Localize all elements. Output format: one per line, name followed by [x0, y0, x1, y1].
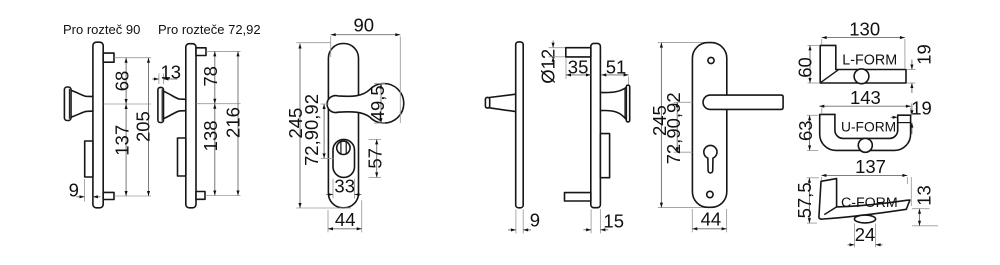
- svg-text:9: 9: [530, 209, 540, 230]
- svg-text:33: 33: [334, 175, 355, 196]
- C-FORM dim 24: [854, 224, 856, 248]
- fig3 dim 33: [332, 179, 334, 199]
- svg-text:Ø12: Ø12: [538, 49, 559, 84]
- C-FORM dim 137: [820, 177, 822, 180]
- fig3 screw head: [337, 141, 350, 154]
- fig3 dim 57: [369, 138, 382, 140]
- U-FORM handle (top view) outer: [820, 114, 911, 150]
- svg-text:137: 137: [855, 156, 886, 177]
- fig5 lever grip face: [626, 85, 629, 122]
- svg-text:13: 13: [161, 62, 182, 83]
- fig2 top pin: [196, 48, 206, 56]
- U-FORM dim 19: [911, 104, 913, 116]
- svg-text:60: 60: [794, 57, 815, 78]
- svg-text:Pro rozteče 72,92: Pro rozteče 72,92: [158, 22, 261, 37]
- fig2 knob face: [158, 87, 164, 122]
- svg-text:35: 35: [568, 56, 589, 77]
- svg-text:Pro rozteč 90: Pro rozteč 90: [63, 22, 140, 37]
- C-FORM dim 57,5: [807, 177, 819, 179]
- svg-text:205: 205: [132, 111, 153, 142]
- L-FORM hub circle: [854, 69, 869, 84]
- svg-text:15: 15: [603, 210, 624, 231]
- L-FORM dim 60: [808, 44, 820, 46]
- fig6 screw hole top: [708, 57, 714, 63]
- L-FORM handle (top view): [820, 45, 906, 83]
- svg-text:U-FORM: U-FORM: [841, 120, 896, 135]
- fig1 extension lines: [114, 57, 151, 59]
- fig6 euro keyhole: [704, 145, 717, 173]
- fig2 dim 78/138 line: [214, 51, 216, 195]
- fig3 knob (front): [327, 84, 404, 124]
- L-FORM dim 130: [821, 39, 823, 44]
- fig3 plate (front view): [328, 44, 358, 208]
- svg-text:63: 63: [795, 120, 816, 141]
- fig5 spindle pin top: [566, 48, 591, 57]
- svg-text:C-FORM: C-FORM: [841, 195, 898, 211]
- fig1 knob face: [64, 87, 71, 121]
- C-FORM dim 13: [910, 177, 912, 206]
- svg-text:19: 19: [911, 98, 932, 119]
- fig5 plate (side view): [591, 43, 601, 207]
- svg-text:57: 57: [364, 148, 385, 169]
- fig6 screw hole bottom: [707, 191, 713, 197]
- svg-text:24: 24: [855, 224, 876, 245]
- U-FORM dim 63: [807, 114, 818, 116]
- fig1 bottom pin: [103, 192, 114, 199]
- svg-text:130: 130: [849, 18, 880, 39]
- fig3 dim 44: [327, 210, 329, 232]
- fig5 lever neck: [600, 87, 626, 119]
- fig5/6 dim 245: [658, 42, 709, 44]
- svg-text:72,90,92: 72,90,92: [663, 92, 684, 164]
- fig1 knob neck: [71, 90, 93, 117]
- fig2 cylinder cover (raised block): [178, 138, 186, 176]
- U-FORM dim 143: [821, 108, 823, 114]
- svg-text:L-FORM: L-FORM: [842, 52, 897, 68]
- fig5 dim 35: [565, 58, 567, 80]
- fig5 dim 15: [590, 209, 592, 233]
- fig6 dim 72,90,92: [674, 101, 693, 103]
- svg-text:49,5: 49,5: [367, 85, 388, 121]
- fig1 cylinder cover (raised block): [85, 141, 93, 177]
- svg-text:216: 216: [222, 107, 243, 138]
- fig3 dim 72,90,92: [323, 104, 325, 158]
- C-FORM handle (top view): [819, 179, 910, 220]
- fig1 dim 68/137 line: [125, 58, 127, 196]
- fig3 cylinder oval: [333, 139, 355, 177]
- U-FORM end ledge: [898, 122, 911, 124]
- svg-text:44: 44: [335, 209, 356, 230]
- svg-text:137: 137: [111, 125, 132, 156]
- svg-text:57,5: 57,5: [794, 182, 815, 218]
- svg-text:138: 138: [200, 120, 221, 151]
- fig2 bottom pin: [196, 192, 205, 200]
- svg-text:78: 78: [200, 66, 221, 87]
- fig3 extension lines: [296, 42, 330, 44]
- fig2 knob neck: [164, 91, 186, 119]
- svg-text:90: 90: [354, 14, 375, 35]
- fig2 plate (side view): [186, 44, 196, 208]
- fig5 bottom pin: [565, 193, 591, 201]
- C-FORM hub ellipse: [854, 215, 875, 223]
- L-FORM dim 19: [907, 69, 915, 71]
- svg-text:51: 51: [606, 56, 627, 77]
- fig4/5 dim Ø12: [552, 41, 554, 48]
- fig4 dim 9: [515, 209, 517, 233]
- fig1 plate (side view): [93, 42, 103, 208]
- svg-text:19: 19: [913, 44, 934, 65]
- fig6 dim 44: [691, 209, 693, 232]
- U-FORM inner: [835, 114, 898, 138]
- U-FORM hub circle: [858, 138, 872, 152]
- svg-text:68: 68: [111, 71, 132, 92]
- fig1 dim 205 line: [148, 58, 150, 196]
- svg-text:9: 9: [69, 179, 79, 200]
- fig6 lever handle: [703, 95, 783, 109]
- fig4 plate (side view): [516, 42, 524, 208]
- fig1 top pin: [103, 53, 114, 62]
- svg-text:143: 143: [850, 87, 881, 108]
- svg-text:72,90,92: 72,90,92: [301, 94, 322, 166]
- svg-text:44: 44: [701, 209, 722, 230]
- fig6 plate (front view): [692, 43, 726, 208]
- fig2 extension lines: [206, 50, 240, 52]
- fig4 conical pull: [489, 94, 515, 111]
- fig1 dim 9: [84, 179, 86, 202]
- fig2 dim 216 line: [237, 51, 239, 195]
- svg-text:13: 13: [914, 185, 935, 206]
- fig3 dim 49,5: [374, 83, 385, 85]
- fig5 cylinder cover (raised block): [600, 134, 609, 178]
- fig2 dim 13: [158, 74, 160, 85]
- fig5 dim 51: [628, 77, 630, 85]
- fig3 dim 245: [299, 44, 301, 209]
- fig3 dim 90: [331, 34, 401, 36]
